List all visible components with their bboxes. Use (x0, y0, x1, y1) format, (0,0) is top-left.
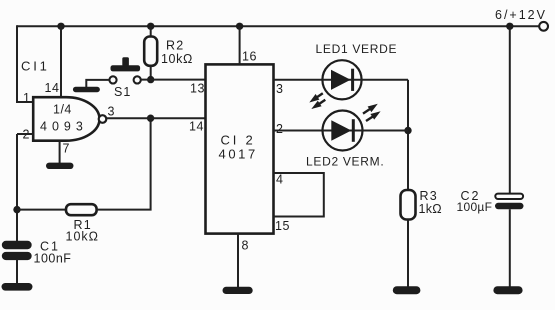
ground (CI2 pin 8) (223, 287, 253, 294)
svg-text:1/4: 1/4 (53, 102, 72, 116)
ground (S1) (73, 87, 100, 92)
wire S1 left terminal to ground (86, 80, 109, 88)
label R2 (166, 38, 184, 52)
wire rail to R2 (150, 26, 152, 36)
junction LED2 / right rail (404, 127, 411, 134)
junction gate output node (147, 115, 154, 122)
label 10kΩ (R1) (66, 230, 100, 244)
svg-text:16: 16 (242, 50, 257, 64)
svg-text:LED2 VERM.: LED2 VERM. (306, 155, 384, 169)
LED1 emission arrows (309, 93, 325, 109)
label 1/4 (53, 102, 72, 116)
svg-text:6/+12V: 6/+12V (495, 8, 547, 22)
wire CI2 pin 3 to LED1 (274, 79, 323, 81)
label C2 (461, 189, 481, 203)
wire LED1 to right rail (362, 79, 408, 81)
pin label 1 (23, 91, 30, 105)
svg-text:14: 14 (189, 120, 204, 134)
pin label 15 (275, 219, 290, 233)
svg-text:3: 3 (276, 82, 283, 96)
junction rail / pin 16 (236, 23, 243, 30)
svg-text:8: 8 (242, 239, 249, 253)
resistor R2 (144, 37, 157, 66)
svg-text:4093: 4093 (40, 120, 88, 134)
capacitor C2 (495, 194, 524, 210)
pin label 4 (276, 172, 283, 186)
svg-text:7: 7 (63, 142, 70, 156)
wire gate pin 7 to ground (59, 141, 61, 163)
pin label 8 (242, 239, 249, 253)
pin label 14 (CI2) (189, 120, 204, 134)
svg-text:10kΩ: 10kΩ (161, 52, 193, 66)
wire CI2 pin 8 to ground (237, 234, 239, 288)
svg-text:100nF: 100nF (34, 252, 72, 266)
wire R1 to feedback vertical (97, 118, 151, 209)
pin label 3 (CI2) (276, 82, 283, 96)
wire S1 node to CI2 pin 13 (141, 79, 206, 81)
wire gate pin 2 stub (17, 133, 33, 135)
ground (C2) (493, 286, 522, 294)
IC CI2 4017 body (206, 64, 274, 233)
label CI 2 (221, 133, 256, 148)
capacitor C1 (2, 241, 32, 260)
LED1 body (322, 60, 361, 99)
label LED2 VERM. (306, 155, 384, 169)
pin label 3 (gate output) (108, 105, 115, 119)
svg-text:2: 2 (276, 122, 283, 136)
junction S1/R2/pin13 (147, 76, 154, 83)
wire rail to C2 (509, 26, 511, 193)
label R1 (74, 218, 92, 232)
wire R3 to ground (407, 220, 409, 287)
label 4093 (40, 120, 88, 134)
label S1 (114, 85, 131, 99)
pin label 2 (23, 128, 30, 142)
svg-text:10kΩ: 10kΩ (66, 230, 100, 244)
svg-text:S1: S1 (114, 85, 131, 99)
wire C1 to ground (16, 260, 18, 284)
wire LED2 to right rail (363, 130, 409, 132)
junction rail / gate pin 14 (57, 23, 64, 30)
wire CI1 power branch (rail down to pin 1) (17, 25, 34, 102)
wire node to R1 (17, 209, 66, 211)
nand gate CI1 1/4 4093 (33, 97, 99, 141)
switch S1 contacts (109, 76, 140, 83)
label 100µF (457, 200, 493, 214)
pin label 14 (gate) (45, 81, 60, 95)
svg-text:CI1: CI1 (21, 59, 50, 74)
LED2 body (323, 111, 363, 151)
junction rail / R2 (147, 23, 154, 30)
inversion bubble (99, 115, 107, 123)
svg-text:1kΩ: 1kΩ (419, 202, 442, 216)
supply terminal 6/+12V (539, 22, 548, 31)
ground (R3) (393, 286, 421, 294)
label 10kΩ (R2) (161, 52, 193, 66)
resistor R3 (401, 190, 416, 220)
wire gate pin 14 (60, 26, 62, 96)
label R3 (420, 189, 438, 203)
svg-text:R2: R2 (166, 38, 184, 52)
ground (gate pin 7) (46, 163, 74, 169)
label C1 (40, 240, 60, 254)
junction rail / C2 (506, 23, 513, 30)
label CI1 (21, 59, 50, 74)
label 100nF (34, 252, 72, 266)
label LED1 VERDE (316, 42, 398, 56)
wire right rail down to R3 (407, 80, 409, 190)
ground (C1) (2, 283, 33, 291)
junction node input/R1/C1 (13, 206, 20, 213)
pin label 13 (190, 81, 205, 95)
svg-text:LED1 VERDE: LED1 VERDE (316, 42, 398, 56)
svg-text:CI 2: CI 2 (221, 133, 256, 148)
label 6/+12V (495, 8, 547, 22)
resistor R1 (66, 204, 97, 215)
pin label 2 (CI2) (276, 122, 283, 136)
wire R2 to S1 node (150, 66, 152, 80)
svg-text:100µF: 100µF (457, 200, 493, 214)
svg-text:4: 4 (276, 172, 283, 186)
LED2 emission arrows (363, 104, 381, 121)
svg-text:R3: R3 (420, 189, 438, 203)
switch S1 button actuator (111, 57, 141, 71)
pin label 7 (63, 142, 70, 156)
svg-text:14: 14 (45, 81, 60, 95)
svg-text:15: 15 (275, 219, 290, 233)
label 1kΩ (419, 202, 442, 216)
wire CI2 pin 16 (239, 26, 241, 64)
wire input node down to C1 (16, 134, 18, 242)
wire gate output to CI2 pin 14 (106, 117, 205, 119)
wire C2 to ground (509, 209, 511, 286)
wire +V supply rail (17, 25, 539, 27)
wire CI2 pin 2 to LED2 (274, 130, 323, 132)
wire CI2 pins 4-15 jumper (274, 173, 324, 217)
svg-text:13: 13 (190, 81, 205, 95)
label 4017 (219, 147, 258, 162)
svg-text:1: 1 (23, 91, 30, 105)
svg-text:3: 3 (108, 105, 115, 119)
svg-text:4017: 4017 (219, 147, 258, 162)
pin label 16 (242, 50, 257, 64)
